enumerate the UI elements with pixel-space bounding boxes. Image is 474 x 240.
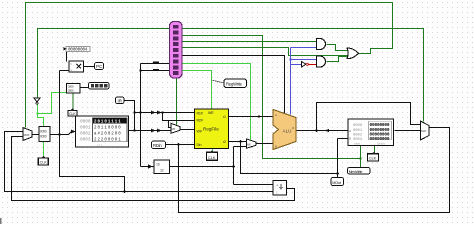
svg-text:B: B (275, 145, 277, 149)
svg-text:A: A (349, 129, 351, 133)
svg-text:CLK: CLK (40, 161, 48, 165)
svg-text:CLK: CLK (69, 112, 76, 116)
svg-text:20101111: 20101111 (94, 121, 122, 125)
svg-text:0000: 0000 (40, 135, 47, 139)
svg-text:r1: r1 (223, 115, 226, 119)
svg-text:CLK: CLK (208, 156, 216, 160)
svg-text:ALU: ALU (283, 129, 292, 134)
svg-text:MUX: MUX (421, 129, 427, 133)
svg-text:MX: MX (247, 143, 251, 147)
svg-text:Din: Din (197, 143, 202, 147)
svg-text:WE: WE (208, 111, 214, 115)
svg-text:i v l: i v l (97, 143, 102, 147)
svg-text:r2: r2 (223, 140, 226, 144)
svg-text:MX: MX (172, 127, 176, 131)
svg-text:32: 32 (160, 169, 164, 173)
svg-text:MOut: MOut (332, 181, 342, 185)
svg-text:IR: IR (118, 98, 122, 103)
svg-text:S: S (283, 111, 285, 115)
svg-text:MUX: MUX (24, 133, 30, 137)
svg-text:0001: 0001 (353, 129, 363, 133)
svg-text:RegWrite: RegWrite (226, 82, 243, 87)
svg-text:20110000: 20110000 (94, 127, 122, 131)
svg-text:MemWrite: MemWrite (349, 170, 363, 174)
svg-text:00000004: 00000004 (68, 49, 88, 53)
svg-text:0002: 0002 (353, 133, 363, 137)
svg-text:R1#: R1# (197, 111, 203, 115)
svg-text:total: total (354, 142, 360, 146)
svg-text:0000: 0000 (353, 124, 363, 128)
svg-text:0003: 0003 (80, 138, 91, 143)
svg-text:W#: W# (197, 129, 202, 133)
svg-text:0002: 0002 (80, 132, 91, 137)
svg-text:0000: 0000 (40, 130, 47, 134)
svg-text:1b/cls: 1b/cls (377, 142, 385, 146)
svg-text:0001: 0001 (80, 126, 91, 131)
svg-text:16: 16 (156, 163, 160, 167)
svg-text:0000: 0000 (68, 89, 74, 93)
svg-text:A: A (275, 113, 277, 117)
svg-text:R2#: R2# (197, 118, 203, 122)
svg-text:RegFile: RegFile (203, 127, 219, 132)
svg-text:PC: PC (96, 64, 103, 69)
svg-text:0000: 0000 (80, 120, 91, 125)
svg-text:CLK: CLK (369, 157, 377, 161)
svg-text:a#200200: a#200200 (94, 133, 122, 137)
svg-text:RDin: RDin (153, 143, 162, 148)
